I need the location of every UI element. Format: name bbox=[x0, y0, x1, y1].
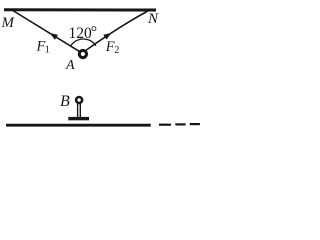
svg-text:F: F bbox=[105, 39, 115, 55]
svg-text:°: ° bbox=[91, 24, 97, 41]
svg-text:M: M bbox=[1, 15, 16, 31]
svg-text:120: 120 bbox=[69, 25, 93, 42]
svg-text:A: A bbox=[65, 58, 75, 73]
svg-text:2: 2 bbox=[114, 45, 119, 56]
svg-text:N: N bbox=[147, 11, 159, 27]
svg-text:B: B bbox=[60, 93, 70, 110]
svg-text:1: 1 bbox=[45, 45, 50, 56]
